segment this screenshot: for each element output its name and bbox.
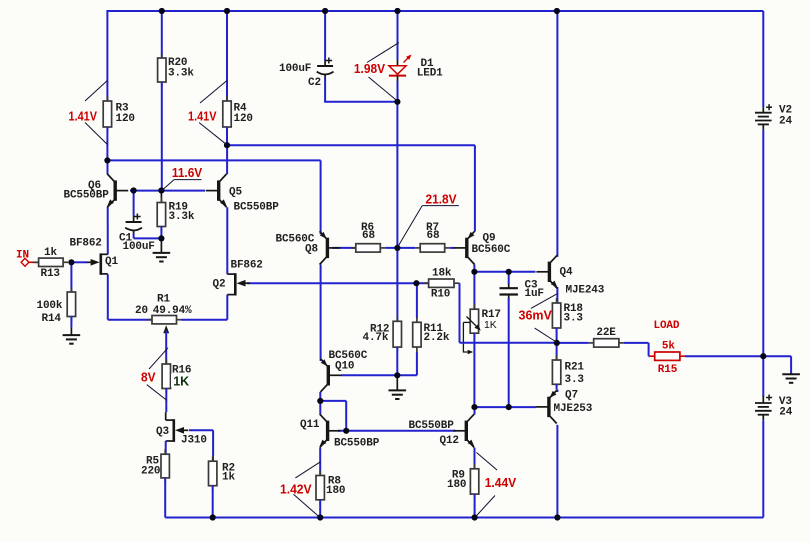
svg-text:BF862: BF862 xyxy=(231,260,263,272)
svg-text:1.98V: 1.98V xyxy=(354,62,386,76)
svg-text:120: 120 xyxy=(116,113,135,125)
svg-text:BC550BP: BC550BP xyxy=(234,202,280,214)
svg-text:R21: R21 xyxy=(565,362,585,374)
svg-text:4.7k: 4.7k xyxy=(363,332,389,344)
svg-text:Q1: Q1 xyxy=(105,256,118,268)
svg-text:1.41V: 1.41V xyxy=(188,110,217,124)
svg-text:100uF: 100uF xyxy=(123,241,155,253)
svg-text:49.94%: 49.94% xyxy=(153,305,192,317)
svg-text:Q8: Q8 xyxy=(305,244,318,256)
svg-text:R15: R15 xyxy=(658,364,678,376)
svg-text:220: 220 xyxy=(141,466,160,478)
svg-text:68: 68 xyxy=(427,230,440,242)
svg-text:R13: R13 xyxy=(41,268,61,280)
svg-text:24: 24 xyxy=(779,407,792,419)
svg-text:68: 68 xyxy=(362,230,375,242)
svg-text:J310: J310 xyxy=(181,435,207,447)
svg-text:3.3: 3.3 xyxy=(564,312,584,324)
svg-text:1K: 1K xyxy=(484,320,497,331)
svg-text:100k: 100k xyxy=(37,300,63,312)
svg-text:3.3k: 3.3k xyxy=(169,211,195,223)
svg-text:Q11: Q11 xyxy=(300,419,320,431)
svg-text:R14: R14 xyxy=(42,313,62,325)
svg-text:BC550BP: BC550BP xyxy=(64,189,110,201)
svg-text:C2: C2 xyxy=(308,77,321,89)
svg-text:Q4: Q4 xyxy=(560,266,573,278)
svg-text:18k: 18k xyxy=(432,268,452,280)
svg-text:Q12: Q12 xyxy=(440,435,459,447)
svg-text:1K: 1K xyxy=(173,375,189,389)
svg-text:24: 24 xyxy=(779,115,792,127)
svg-text:2.2k: 2.2k xyxy=(424,332,450,344)
svg-text:180: 180 xyxy=(326,485,345,497)
svg-text:IN: IN xyxy=(16,249,29,261)
svg-text:8V: 8V xyxy=(141,371,156,385)
svg-text:1.41V: 1.41V xyxy=(69,110,98,124)
svg-text:Q2: Q2 xyxy=(213,279,226,291)
svg-text:120: 120 xyxy=(234,113,253,125)
svg-text:Q3: Q3 xyxy=(156,426,169,438)
svg-text:BC560C: BC560C xyxy=(472,244,511,256)
svg-text:180: 180 xyxy=(447,479,466,491)
svg-text:1k: 1k xyxy=(222,471,235,483)
svg-text:22E: 22E xyxy=(596,327,616,339)
svg-text:1uF: 1uF xyxy=(525,288,544,300)
svg-text:21.8V: 21.8V xyxy=(426,192,458,206)
svg-text:MJE243: MJE243 xyxy=(566,284,605,296)
svg-text:MJE253: MJE253 xyxy=(554,403,593,415)
svg-text:36mV: 36mV xyxy=(519,309,553,323)
svg-text:1.44V: 1.44V xyxy=(485,476,517,490)
svg-text:Q7: Q7 xyxy=(565,390,578,402)
svg-text:Q9: Q9 xyxy=(483,233,496,245)
svg-text:BF862: BF862 xyxy=(70,238,102,250)
svg-text:5k: 5k xyxy=(662,340,675,352)
svg-text:BC550BP: BC550BP xyxy=(409,420,455,432)
svg-text:BC550BP: BC550BP xyxy=(334,438,380,450)
svg-text:3.3: 3.3 xyxy=(565,374,585,386)
svg-text:1k: 1k xyxy=(44,247,57,259)
svg-text:R1: R1 xyxy=(157,293,170,305)
svg-text:Q5: Q5 xyxy=(229,187,242,199)
svg-text:11.6V: 11.6V xyxy=(172,166,203,180)
svg-text:R10: R10 xyxy=(431,288,450,300)
svg-text:3.3k: 3.3k xyxy=(168,67,194,79)
svg-text:100uF: 100uF xyxy=(279,63,311,75)
svg-text:R17: R17 xyxy=(482,309,501,321)
svg-text:LED1: LED1 xyxy=(417,68,443,80)
svg-text:20: 20 xyxy=(135,305,148,317)
svg-text:Q10: Q10 xyxy=(335,361,354,373)
svg-text:1.42V: 1.42V xyxy=(280,482,312,496)
svg-text:LOAD: LOAD xyxy=(654,320,680,332)
